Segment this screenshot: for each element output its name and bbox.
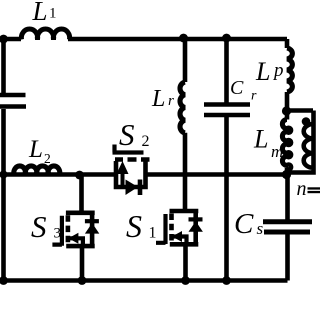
junction dot transformer top (282, 106, 291, 115)
label S1 (126, 208, 157, 244)
junction dot mid rail at S3 branch (75, 171, 84, 180)
label Cs (234, 208, 264, 240)
junction dot top rail at Cr branch (222, 34, 231, 43)
svg-text:2: 2 (142, 133, 150, 150)
transformer secondary winding (287, 111, 314, 173)
svg-text:2: 2 (44, 151, 51, 166)
svg-text:L: L (151, 86, 165, 112)
svg-text:S: S (119, 117, 135, 152)
wire right rail to Cs (285, 175, 290, 221)
wire mid rail from S2 to transformer junction (146, 172, 287, 177)
svg-text:1: 1 (149, 225, 157, 242)
svg-text:S: S (126, 208, 142, 244)
junction dot bottom rail at S3 (78, 276, 87, 285)
svg-text:C: C (230, 77, 244, 99)
wire mid rail from L2 to S2 (4, 172, 117, 177)
label Lm (253, 125, 283, 162)
wire Cr branch upper (224, 39, 229, 103)
svg-text:L: L (32, 0, 48, 26)
svg-text:p: p (272, 60, 284, 81)
wire S3 source to bottom rail (80, 246, 85, 281)
label S2 (119, 117, 150, 152)
wire Lm upper stub (285, 111, 290, 120)
label L1 (32, 0, 57, 26)
wire Cs to bottom rail (285, 234, 290, 281)
svg-text:n: n (297, 178, 307, 200)
capacitor Cs (263, 222, 312, 232)
svg-text:m: m (271, 142, 283, 161)
svg-text:1: 1 (49, 6, 57, 22)
label L2 (28, 136, 51, 166)
capacitor input (unlabeled, cut at left edge) (0, 95, 26, 107)
svg-text:L: L (28, 136, 43, 163)
wire left rail upper segment (1, 39, 6, 93)
wire Lr branch upper (183, 39, 188, 82)
transistor S2 (MOSFET with body diode, horizontal) (113, 145, 150, 196)
inductor L2 coil (14, 166, 60, 175)
label Lp (255, 57, 284, 86)
junction dot bottom rail at S1 (181, 276, 190, 285)
wire left rail lower segment (1, 109, 6, 281)
transistor S1 (MOSFET with body diode, vertical) (156, 211, 203, 244)
wire top rail main segment (68, 37, 287, 42)
inductor Lr coil (180, 82, 185, 133)
wire Lr to S1 drain (crosses mid rail, no dot) (183, 133, 188, 212)
junction dot top rail at Lr branch (179, 34, 188, 43)
label S3 (31, 209, 61, 244)
junction dot transformer bottom (282, 170, 291, 179)
wire S1 source to bottom rail (183, 244, 188, 281)
transistor S3 (MOSFET with body diode, vertical) (52, 213, 99, 246)
label Cr (230, 77, 257, 104)
inductor L1 coil (21, 29, 69, 40)
svg-text:C: C (234, 208, 254, 240)
svg-text:3: 3 (54, 226, 62, 242)
wire bottom rail (0, 278, 288, 283)
junction dot bottom-left corner (0, 276, 8, 285)
wire secondary top link (287, 108, 314, 113)
wire Cr branch lower (224, 117, 229, 281)
junction dot left rail at L2 tap (0, 171, 8, 179)
wire S3 drain branch (79, 175, 84, 213)
wire top rail left stub (4, 37, 22, 42)
inductor Lp coil (287, 48, 292, 92)
label n=1 turns ratio (297, 178, 320, 200)
capacitor Cr (204, 105, 250, 116)
svg-text:L: L (253, 125, 268, 154)
inductor Lm coil (282, 120, 290, 170)
svg-text:r: r (168, 93, 174, 109)
svg-text:s: s (257, 219, 264, 238)
wire right rail Lp to junction (285, 92, 290, 112)
junction dot bottom rail at Cr branch (222, 276, 231, 285)
label Lr (151, 86, 174, 112)
svg-text:S: S (31, 209, 47, 244)
svg-text:r: r (251, 89, 257, 104)
wire right rail top corner (285, 39, 290, 48)
wire Lm lower stub (285, 168, 290, 175)
polarity dot secondary (302, 117, 311, 126)
svg-text:L: L (255, 57, 270, 86)
junction dot top-left corner (0, 35, 8, 44)
